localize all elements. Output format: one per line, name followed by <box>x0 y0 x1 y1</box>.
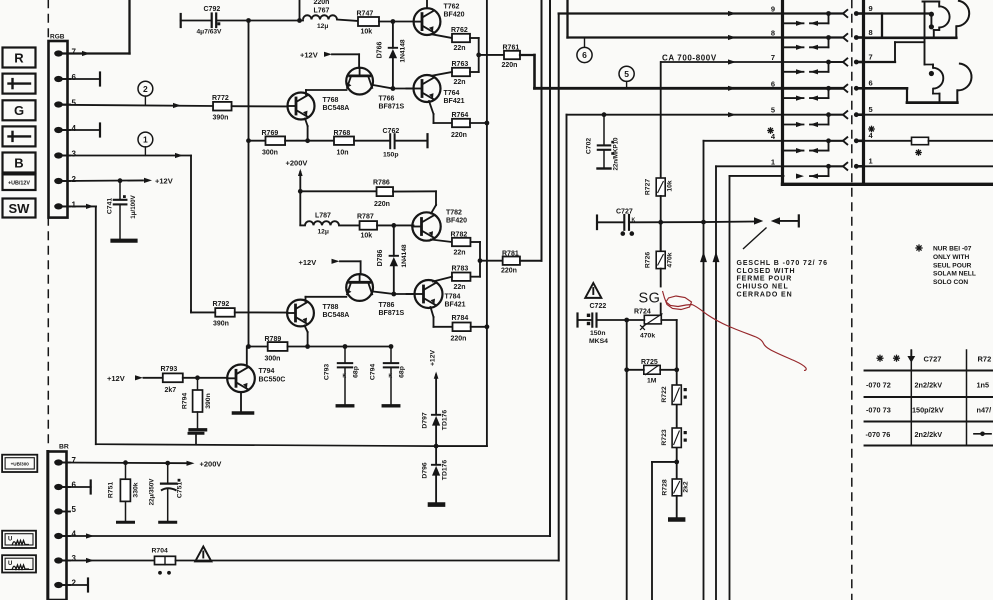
svg-text:150p: 150p <box>383 152 399 159</box>
svg-text:U: U <box>8 561 12 567</box>
switch contact <box>704 221 755 224</box>
svg-text:R768: R768 <box>334 130 351 137</box>
svg-text:C751: C751 <box>177 482 184 498</box>
diode D766 1N4148 <box>392 22 394 48</box>
signal label box +UB/12V <box>3 174 36 190</box>
svg-text:5: 5 <box>771 106 775 115</box>
variant table <box>865 350 993 446</box>
svg-text:T768: T768 <box>323 97 339 104</box>
svg-text:4μ7/63V: 4μ7/63V <box>197 29 223 36</box>
connector interface right bar <box>862 0 865 184</box>
ground for R794 <box>190 428 206 431</box>
wire R766 net from top edge <box>299 0 301 21</box>
wire pin6 row from R761 <box>535 87 843 90</box>
wire pin7 row CA 700-800V <box>661 61 842 63</box>
connector pin 9 contact <box>771 4 873 26</box>
node R784 junction <box>485 324 490 329</box>
resistor R794 <box>197 378 199 390</box>
resistor R723 <box>672 428 681 448</box>
wire T788 emitter to R789 row <box>305 326 308 333</box>
CRT contact shape 2 <box>907 64 972 103</box>
capacitor C727 row <box>596 216 598 230</box>
connector BR <box>48 444 77 601</box>
ground for T794 <box>234 411 253 415</box>
svg-text:SW: SW <box>9 201 31 216</box>
svg-text:220n: 220n <box>314 0 330 6</box>
transistor T764 BF421 <box>414 75 441 102</box>
svg-text:150p/2kV: 150p/2kV <box>912 406 944 415</box>
svg-text:BC548A: BC548A <box>323 312 350 319</box>
svg-text:+UB/12V: +UB/12V <box>8 181 30 187</box>
wire row7 right <box>864 61 896 63</box>
resistor R704 <box>155 556 176 564</box>
svg-text:SEUL POUR: SEUL POUR <box>933 262 972 269</box>
wire T782 emitter <box>431 240 452 243</box>
svg-text:470k: 470k <box>667 252 674 267</box>
svg-text:7: 7 <box>72 48 77 57</box>
transistor T786 BF871S stage2 <box>346 274 373 301</box>
svg-text:22μ/350V: 22μ/350V <box>149 478 156 506</box>
svg-text:R761: R761 <box>503 45 520 52</box>
resistor R784 <box>453 323 471 332</box>
resistor R786 <box>377 187 394 196</box>
dashed sheet border right <box>851 0 853 600</box>
svg-text:6: 6 <box>72 73 77 82</box>
svg-text:C794: C794 <box>370 364 377 380</box>
node circle 5 <box>619 66 634 81</box>
svg-text:FERME POUR: FERME POUR <box>737 276 793 283</box>
wire T784 base <box>407 293 415 295</box>
wire T762 collector to top <box>426 0 428 8</box>
svg-text:GESCHL B -070 72/ 76: GESCHL B -070 72/ 76 <box>737 260 828 267</box>
wire pin8 row <box>568 36 843 38</box>
connector interface bottom bar <box>783 183 993 186</box>
resistor R783 <box>452 273 471 281</box>
svg-text:n47/: n47/ <box>977 406 992 415</box>
wire RGB pin7 to top edge <box>62 52 130 54</box>
svg-text:CHIUSO NEL: CHIUSO NEL <box>737 284 789 291</box>
svg-text:D796: D796 <box>422 462 429 478</box>
wire pin5 rail to bottom <box>566 115 568 600</box>
warning triangle on BR pin3 net <box>195 547 211 562</box>
svg-text:ONLY WITH: ONLY WITH <box>933 254 970 261</box>
red pen scribble annotation <box>663 291 807 370</box>
wire R781 output to top edge <box>520 260 542 262</box>
transistor T784 BF421 <box>415 280 443 308</box>
svg-text:1μ/100V: 1μ/100V <box>130 194 137 218</box>
svg-text:22n: 22n <box>454 250 466 257</box>
wire BR pin4 row <box>62 535 550 537</box>
svg-text:BF420: BF420 <box>446 218 467 225</box>
star note mark <box>916 247 922 249</box>
wire T766 collector <box>373 85 393 89</box>
svg-text:R726: R726 <box>645 252 652 268</box>
svg-text:22n: 22n <box>454 45 466 52</box>
svg-text:+200V: +200V <box>200 460 222 469</box>
ground for C794 <box>383 404 399 407</box>
svg-text:D797: D797 <box>422 412 429 428</box>
capacitor C702 <box>602 112 607 117</box>
resistor R747 <box>337 20 359 22</box>
signal label box pulse icon 2 <box>3 126 36 146</box>
svg-text:2n2/2kV: 2n2/2kV <box>915 430 943 439</box>
svg-text:C727: C727 <box>616 209 633 216</box>
svg-text:K: K <box>343 374 347 380</box>
node R764 junction <box>485 121 490 126</box>
svg-text:+12V: +12V <box>429 350 436 367</box>
wire rail x558 pin9 to BR pin3 row <box>558 14 560 561</box>
node R789 row left <box>246 344 251 349</box>
svg-text:BC550C: BC550C <box>259 377 286 384</box>
svg-text:10k: 10k <box>361 29 373 36</box>
signal label box pulse icon <box>3 74 36 94</box>
svg-text:1: 1 <box>869 157 873 166</box>
wire BR pin3 row with R704 <box>62 560 155 562</box>
wire T788 collector to T786 base <box>305 297 307 302</box>
resistor R728 2k2 <box>672 479 681 496</box>
svg-text:R727: R727 <box>645 179 652 195</box>
svg-text:CERRADO EN: CERRADO EN <box>737 292 793 299</box>
svg-text:R781: R781 <box>502 250 519 257</box>
svg-text:NUR BEI -07: NUR BEI -07 <box>933 246 972 253</box>
svg-text:5: 5 <box>869 105 873 114</box>
svg-text:68p: 68p <box>399 366 406 378</box>
transistor T768 BC548A stage1 <box>288 93 315 120</box>
node emitter R768 <box>305 138 310 143</box>
svg-text:220n: 220n <box>451 132 467 139</box>
svg-text:22n: 22n <box>454 284 466 291</box>
connector pin 4 contact <box>771 131 874 153</box>
svg-text:R772: R772 <box>212 95 229 102</box>
svg-text:2k7: 2k7 <box>165 387 177 394</box>
capacitor C741 <box>119 181 121 200</box>
svg-text:4: 4 <box>72 530 77 539</box>
svg-text:T782: T782 <box>446 210 462 217</box>
svg-text:390n: 390n <box>213 321 229 328</box>
connector pin 5 contact <box>771 105 873 127</box>
wire T764 emitter to R764 <box>429 101 434 114</box>
wire pin5 row <box>567 114 843 116</box>
node circle 1 <box>138 132 153 147</box>
resistor R726 <box>660 221 662 252</box>
wire T768 emitter to R769 row <box>305 119 308 127</box>
svg-text:R793: R793 <box>161 366 178 373</box>
node diode bus <box>434 444 439 449</box>
svg-text:220n: 220n <box>374 201 390 208</box>
svg-text:T794: T794 <box>259 368 275 375</box>
svg-text:R783: R783 <box>452 266 469 273</box>
switch pointer line <box>744 228 767 249</box>
wire pin8 rail from top <box>566 0 568 38</box>
node R793-R794 <box>195 375 200 380</box>
transistor T794 BC550C <box>227 365 255 393</box>
svg-text:T764: T764 <box>444 90 460 97</box>
ground for C741 <box>113 239 136 243</box>
node R787-D786 <box>391 223 396 228</box>
resistor R722 <box>672 385 681 405</box>
wire BR pin2 stub <box>62 584 88 586</box>
svg-text:T788: T788 <box>323 304 339 311</box>
star mark pin4 right <box>869 128 874 130</box>
svg-text:7: 7 <box>869 52 873 61</box>
svg-text:BF421: BF421 <box>445 302 466 309</box>
svg-text:C762: C762 <box>383 128 400 135</box>
svg-text:1N4148: 1N4148 <box>400 39 407 62</box>
svg-text:R751: R751 <box>108 482 115 498</box>
ground for C793 <box>337 404 353 407</box>
svg-text:10k: 10k <box>361 233 373 240</box>
wire T764 base <box>406 88 413 90</box>
svg-text:SOLAM NELL: SOLAM NELL <box>933 271 976 278</box>
wire RGB pin3 to R792 <box>62 155 191 157</box>
svg-text:150n: 150n <box>590 330 606 337</box>
wire RGB pin5 to R772 <box>62 105 214 106</box>
svg-text:L767: L767 <box>314 8 330 15</box>
wire T762 emitter <box>432 34 453 38</box>
svg-text:1M: 1M <box>647 378 657 385</box>
svg-text:300n: 300n <box>262 150 278 157</box>
wire T768 collector to T766 base <box>305 90 307 95</box>
wire BR pin6 stub <box>62 486 91 488</box>
svg-text:10k: 10k <box>667 180 674 192</box>
svg-text:1: 1 <box>72 200 77 209</box>
svg-text:4: 4 <box>869 131 874 140</box>
svg-text:+12V: +12V <box>300 51 318 60</box>
wire T784 collector <box>433 277 452 282</box>
svg-text:C792: C792 <box>204 6 221 13</box>
svg-text:4: 4 <box>72 124 77 133</box>
node R769 row left <box>246 138 251 143</box>
svg-text:R724: R724 <box>634 309 651 316</box>
svg-text:68p: 68p <box>353 366 360 378</box>
wire T784 emitter to R784 <box>431 307 434 317</box>
svg-text:T784: T784 <box>445 294 461 301</box>
svg-text:BF420: BF420 <box>444 12 465 19</box>
node C727-R726 <box>658 220 663 225</box>
svg-text:22n/MKP10: 22n/MKP10 <box>613 137 620 171</box>
arrow marks on pin1 net <box>713 252 720 263</box>
node switch junction <box>701 220 706 225</box>
svg-text:+UB/300: +UB/300 <box>11 462 30 467</box>
svg-text:T786: T786 <box>379 302 395 309</box>
svg-text:G: G <box>14 103 24 118</box>
wire rail x549 top to BR pin4 row <box>549 0 551 536</box>
svg-text:TD176: TD176 <box>442 460 449 481</box>
svg-text:390n: 390n <box>213 115 229 122</box>
svg-text:5: 5 <box>624 69 629 79</box>
resistor R772 <box>213 102 232 111</box>
svg-text:8: 8 <box>771 29 775 38</box>
signal label box R <box>3 48 36 68</box>
wire T764 collector <box>432 72 453 76</box>
wire R786 to T782 collector <box>435 191 437 205</box>
resistor R751 330k <box>125 463 127 480</box>
diode D796 TD176 <box>435 446 437 465</box>
star mark pin4 left <box>768 130 773 132</box>
svg-text:220n: 220n <box>501 268 517 275</box>
svg-text:D766: D766 <box>377 42 384 59</box>
wire T794 collector <box>246 347 248 367</box>
svg-text:CA 700-800V: CA 700-800V <box>662 53 717 62</box>
svg-text:U: U <box>8 537 12 543</box>
svg-text:220n: 220n <box>451 336 467 343</box>
svg-text:470k: 470k <box>640 333 655 340</box>
svg-text:1n5: 1n5 <box>977 381 990 390</box>
wire row4 right with resistor <box>864 140 912 142</box>
resistor R764 <box>452 119 470 127</box>
svg-text:2: 2 <box>143 84 148 94</box>
svg-text:D786: D786 <box>377 250 384 267</box>
wire row5 right <box>864 114 993 116</box>
svg-text:7: 7 <box>72 456 77 465</box>
svg-text:R704: R704 <box>152 548 168 555</box>
wire row9 right <box>864 12 932 14</box>
svg-text:9: 9 <box>771 5 775 14</box>
svg-text:1: 1 <box>143 135 148 145</box>
svg-text:R747: R747 <box>357 11 374 18</box>
svg-text:C722: C722 <box>590 303 607 310</box>
svg-text:BC548A: BC548A <box>323 105 350 112</box>
svg-text:R794: R794 <box>182 393 189 409</box>
svg-text:B: B <box>14 155 23 170</box>
svg-text:R722: R722 <box>661 386 668 402</box>
svg-text:SOLO CON: SOLO CON <box>933 279 968 286</box>
svg-text:1: 1 <box>771 157 775 166</box>
arrow marks on pin4 net <box>700 252 707 263</box>
svg-text:1N4148: 1N4148 <box>401 244 408 267</box>
signal label box G <box>3 100 36 120</box>
wire +12V rail vertical from C792 <box>246 18 251 23</box>
wire RGB pin1 down <box>62 205 96 207</box>
wire x626 down <box>626 320 628 600</box>
resistor R761 <box>504 51 520 59</box>
wire pin1 row <box>716 165 842 167</box>
resistor R789 <box>268 342 288 351</box>
node circle 6 <box>577 47 592 62</box>
svg-text:R728: R728 <box>662 479 669 495</box>
svg-text:MKS4: MKS4 <box>589 338 608 345</box>
transistor T766 BF871S <box>346 68 373 95</box>
capacitor C792 <box>180 14 182 27</box>
signal label box U waveform 1 <box>2 531 36 548</box>
svg-text:6: 6 <box>72 481 77 490</box>
svg-text:C793: C793 <box>324 364 331 380</box>
svg-text:6: 6 <box>771 79 775 88</box>
wire long vertical x487 <box>486 0 488 446</box>
node R762-R763-R761 <box>476 53 481 58</box>
resistor R762 <box>452 34 470 42</box>
svg-text:T766: T766 <box>379 96 395 103</box>
inductor L787 <box>300 224 305 226</box>
node +200V rail <box>298 189 303 194</box>
wire BR pin7 +200V <box>62 462 187 465</box>
svg-text:-070 72: -070 72 <box>866 381 891 390</box>
ground for R728 <box>676 496 678 518</box>
wire return bus y446 <box>96 444 436 446</box>
ground stub on return bus <box>195 434 197 443</box>
svg-text:SG: SG <box>639 291 661 307</box>
svg-text:2: 2 <box>72 579 77 588</box>
connector interface left bar <box>781 0 784 184</box>
svg-text:R789: R789 <box>265 336 282 343</box>
resistor R782 <box>452 238 471 246</box>
svg-text:12μ: 12μ <box>318 229 329 236</box>
node circle 2 <box>138 81 153 96</box>
resistor R727 <box>660 62 662 178</box>
diode D786 1N4148 <box>393 225 395 255</box>
capacitor C793 <box>343 344 348 349</box>
svg-text:T762: T762 <box>444 4 460 11</box>
svg-text:R762: R762 <box>451 27 468 34</box>
svg-text:+12V: +12V <box>155 176 173 185</box>
svg-text:3: 3 <box>72 554 77 563</box>
svg-text:9: 9 <box>869 4 873 13</box>
svg-text:6: 6 <box>869 79 873 88</box>
svg-text:22n: 22n <box>454 79 466 86</box>
node R723 bottom <box>674 460 679 465</box>
svg-text:C741: C741 <box>107 198 114 214</box>
wire row8 right <box>864 36 957 39</box>
resistor R769 <box>266 136 286 145</box>
svg-text:R786: R786 <box>373 180 390 187</box>
svg-text:R792: R792 <box>213 301 230 308</box>
svg-text:R769: R769 <box>262 130 279 137</box>
star mark below resistor <box>916 152 921 154</box>
resistor R763 <box>452 68 470 76</box>
svg-text:RGB: RGB <box>50 34 65 41</box>
connector pin 1 contact <box>771 157 873 179</box>
svg-text:CLOSED WITH: CLOSED WITH <box>737 268 796 275</box>
CRT contact shape 1 <box>923 1 970 65</box>
svg-text:8: 8 <box>869 28 873 37</box>
resistor R781 <box>503 257 520 265</box>
connector pin 6 contact <box>771 79 873 101</box>
svg-text:7: 7 <box>771 53 775 62</box>
wire T794 emitter <box>240 392 242 411</box>
svg-text:C702: C702 <box>586 138 593 154</box>
signal label box B <box>3 153 36 173</box>
dashed sheet border left <box>47 0 49 449</box>
transistor T788 BC548A stage2 <box>287 300 314 327</box>
wire junction to x652 <box>652 461 677 463</box>
svg-text:3: 3 <box>72 150 77 159</box>
signal label box U waveform 2 <box>2 555 36 572</box>
svg-text:300n: 300n <box>265 356 281 363</box>
svg-text:BF871S: BF871S <box>379 104 405 111</box>
svg-text:R: R <box>14 50 24 65</box>
signal label box SW <box>3 199 36 218</box>
svg-text:C727: C727 <box>924 354 942 363</box>
svg-text:2n2/2kV: 2n2/2kV <box>915 381 943 390</box>
capacitor C751 22u/350V <box>167 463 169 483</box>
transistor T782 BF420 <box>412 212 440 240</box>
svg-text:2: 2 <box>72 175 77 184</box>
wire RGB pin6 stub <box>62 78 100 80</box>
svg-text:BR: BR <box>59 444 69 451</box>
svg-text:12μ: 12μ <box>317 23 328 30</box>
resistor R793 <box>163 373 183 382</box>
svg-text:R782: R782 <box>451 232 468 239</box>
svg-text:390n: 390n <box>205 393 212 409</box>
svg-text:R787: R787 <box>357 214 374 221</box>
connector pin 8 contact <box>771 28 873 50</box>
svg-text:R72: R72 <box>978 354 992 363</box>
capacitor C762 <box>389 134 391 148</box>
node R747-D766 <box>391 19 396 24</box>
wire R761 output to pin6 row <box>520 54 535 56</box>
resistor R792 <box>215 308 235 317</box>
svg-text:5: 5 <box>72 99 77 108</box>
